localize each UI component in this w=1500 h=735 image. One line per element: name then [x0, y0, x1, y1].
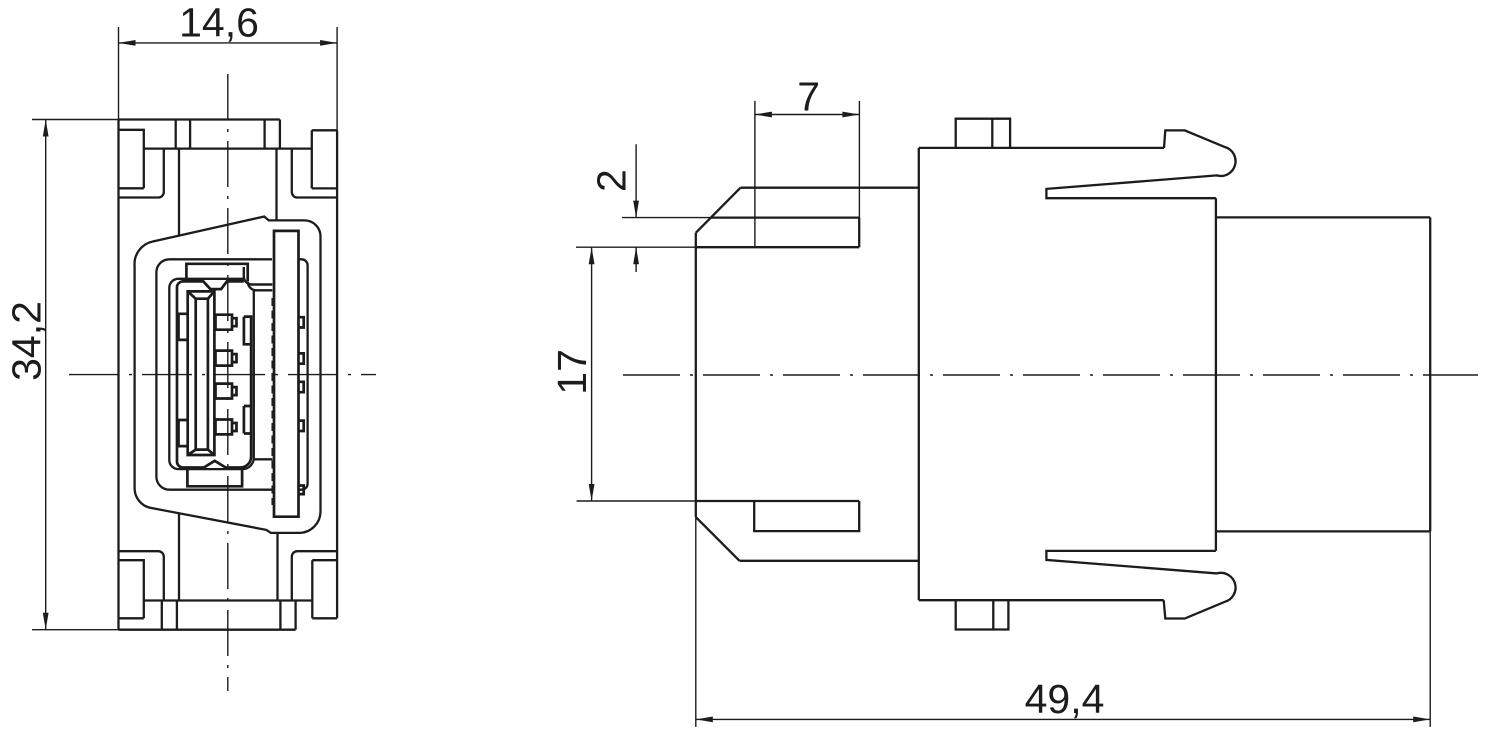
bottom shoulder line	[144, 599, 312, 601]
tongue corner bevels	[188, 291, 215, 455]
top latch hook	[1046, 130, 1235, 198]
top-right strip edge	[312, 129, 337, 131]
front bottom chamfer	[696, 517, 740, 561]
bottom-left spring tab	[119, 560, 144, 618]
right wall bump 1	[244, 317, 252, 345]
USB shell outline	[177, 281, 251, 467]
USB tongue face	[196, 299, 208, 450]
dim 17 dimension line	[591, 247, 593, 501]
centerline horizontal (left view)	[69, 374, 376, 376]
dim 14,6 dimension line	[119, 42, 338, 44]
bottom lug divider	[992, 600, 994, 629]
dim 14,6 extension lines	[119, 27, 338, 130]
svg-text:34,2: 34,2	[4, 301, 50, 381]
left wall bump 2	[179, 420, 188, 446]
dim 7 dimension line	[755, 114, 860, 116]
rear section right edge	[1429, 217, 1431, 531]
rear section top edge	[1216, 216, 1430, 218]
top mounting lug	[956, 119, 1010, 148]
inner contour 2 right sliver	[299, 259, 308, 489]
top-right spring tab	[312, 130, 337, 188]
bottom mounting lug	[956, 600, 1009, 629]
bottom plate right step	[294, 601, 296, 630]
dim 34,2 extension lines	[32, 120, 119, 630]
rib side bump 1	[299, 317, 304, 327]
dim 49,4 extension lines	[696, 517, 1430, 727]
flange top edge	[741, 187, 919, 189]
dim 2 leader lines	[635, 144, 637, 272]
top latch plate edge	[119, 118, 280, 120]
rib side bump 4	[299, 421, 304, 431]
bottom latch rect	[754, 501, 859, 531]
front top chamfer	[696, 188, 741, 233]
hidden edge dashed	[271, 298, 273, 505]
latch step top edge	[711, 216, 860, 218]
bottom-left pocket	[119, 551, 164, 600]
bottom latch hook	[1046, 551, 1235, 619]
top-left pocket	[119, 149, 164, 198]
dim 7 extension lines	[755, 101, 860, 247]
dim 2 extension line	[622, 217, 711, 219]
top plate right drop	[279, 120, 281, 149]
svg-text:49,4: 49,4	[1025, 676, 1105, 722]
bottom panel edge	[119, 629, 296, 631]
holder tall rib rect	[274, 231, 299, 517]
top-right pocket	[292, 149, 337, 198]
dim 49,4 dimension line	[696, 718, 1430, 720]
top-left spring tab	[119, 130, 144, 189]
neck bottom edge	[696, 500, 859, 502]
latch step top right edge	[858, 218, 860, 248]
rib side bump 3	[299, 382, 304, 392]
top lug divider	[991, 119, 993, 148]
arrowheads 49,4	[696, 717, 713, 723]
shell top flange rect	[186, 264, 247, 282]
inner contour 3 (shell recess)	[169, 279, 254, 469]
dim 17 extension lines	[576, 247, 696, 501]
neck top edge	[696, 246, 859, 248]
shell right elbow lines	[244, 267, 272, 290]
dim 34,2 dimension line	[45, 120, 47, 630]
body right edge	[1215, 198, 1217, 551]
svg-text:2: 2	[589, 169, 635, 192]
contact pin 1	[216, 315, 237, 330]
top shoulder line	[144, 147, 312, 149]
arrowheads 2	[633, 201, 639, 218]
bottom plate pillar lines	[162, 601, 281, 630]
top plate pillar lines	[176, 120, 265, 149]
centerline horizontal (right view)	[623, 374, 1478, 376]
contact pin 4	[216, 420, 237, 435]
top opening side walls	[179, 149, 277, 236]
arrowheads 17	[589, 247, 595, 264]
USB holder outline	[135, 217, 321, 533]
body bottom edge	[919, 599, 1164, 601]
right wall bump 2	[244, 406, 252, 434]
bottom-right pocket	[292, 551, 337, 600]
rear section bottom edge	[1216, 530, 1430, 532]
arrowheads 7	[755, 112, 772, 118]
inner contour 2 left	[156, 259, 272, 489]
svg-text:14,6: 14,6	[179, 0, 259, 45]
panel right edge	[336, 130, 338, 618]
body top edge	[919, 147, 1164, 149]
contact pin 3	[216, 384, 237, 399]
svg-text:7: 7	[797, 73, 820, 119]
arrowheads 34,2	[43, 120, 49, 137]
panel left edge	[117, 120, 119, 630]
USB tongue outer	[188, 291, 215, 455]
centerline vertical (left view)	[227, 74, 229, 691]
rib side bump 5	[299, 486, 304, 495]
flange bottom edge	[740, 560, 919, 562]
front face edge	[695, 233, 697, 517]
shell bottom flange rect	[187, 468, 242, 487]
left wall bump 1	[179, 314, 188, 340]
arrowheads 14,6	[119, 40, 136, 46]
bottom-right spring tab	[312, 560, 337, 600]
svg-text:17: 17	[549, 349, 595, 395]
contact pin 2	[216, 351, 237, 366]
shell right bracket stub	[254, 458, 272, 460]
bottom opening side walls	[179, 513, 278, 600]
bottom-right step edge	[312, 601, 337, 619]
rib side bump 2	[299, 353, 304, 363]
body left edge	[918, 148, 920, 600]
